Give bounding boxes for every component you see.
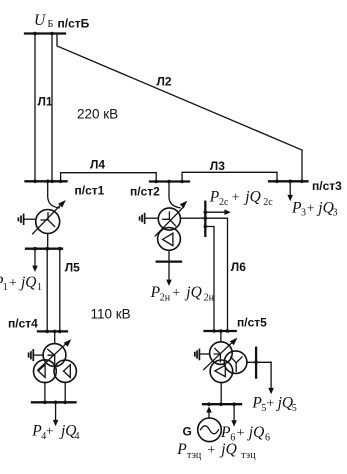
svg-text:п/ст4: п/ст4 [8,317,38,331]
svg-text:+: + [232,191,240,206]
busbar п/ст5 [205,330,236,332]
svg-text:Л3: Л3 [210,159,225,173]
svg-text:2с: 2с [219,197,229,208]
svg-text:+: + [237,426,245,441]
busbar п/ст3 [269,180,308,182]
svg-text:P: P [220,424,231,441]
transformer T4 regulation arrow [38,342,68,370]
transformer T5 connection wire [220,331,222,342]
label P6+jQ6 [220,424,270,444]
svg-text:jQ: jQ [219,441,237,458]
svg-text:п/ст2: п/ст2 [130,185,160,199]
T4 LV down wire [64,382,66,402]
generator G circle [198,418,222,442]
transformer T1 connection wire (curved) [48,181,60,208]
node busbar Б joints [33,32,37,36]
busbar Б (source bus) [25,32,65,34]
load arrow P1 [34,249,36,266]
transformer T4 HV circle [43,344,66,367]
svg-text:P: P [176,441,187,458]
line Л1 circuit 2 [51,34,53,182]
T5 LV delta winding symbol [215,365,225,376]
busbar п/ст2 MV (vertical) [204,202,206,236]
T5 MV wire to MV bus [247,361,271,363]
svg-text:3: 3 [301,208,306,219]
T2 MV wire to MV bus and line Л6 circuit 2 [180,218,227,331]
wire Л4 [61,173,157,182]
busbar п/ст2 LV [157,260,181,262]
node п/ст4 joints [45,330,49,334]
transformer T2 LV circle [158,228,181,251]
T5 star winding symbol [214,348,220,361]
label P5+jQ5 [251,395,296,415]
T2 LV down wire [168,250,170,261]
svg-text:Л2: Л2 [157,75,172,89]
ground T5 [198,349,200,359]
svg-text:2н: 2н [160,293,171,304]
svg-text:jQ: jQ [247,424,264,441]
T4 neutral ground wire [33,354,43,356]
T4 star winding symbol [48,349,55,363]
svg-text:2с: 2с [263,197,273,208]
transformer T4 LV circle [54,360,76,382]
load arrow P2с [205,211,224,213]
wire Л3 [182,172,277,181]
line Л2 [57,34,302,182]
svg-text:1: 1 [37,282,42,293]
label P4+jQ4 [31,423,79,443]
label P1+jQ1 [0,274,42,293]
svg-text:+: + [172,286,180,301]
svg-text:Л4: Л4 [90,158,105,172]
svg-text:тэц: тэц [241,450,256,461]
node п/ст5 joints [212,329,216,333]
ground T4 [32,350,34,360]
svg-text:2н: 2н [204,293,215,304]
T5 MV Y winding symbol [231,357,242,372]
transformer T1 circle U1 [36,210,60,234]
label P3+jQ3 [291,199,338,218]
svg-text:тэц: тэц [187,450,202,461]
svg-text:110 кВ: 110 кВ [91,307,131,322]
load arrow P2н [168,262,170,280]
svg-text:Л5: Л5 [65,261,80,275]
busbar п/ст2 [150,180,189,182]
transformer T2 connection wire (curved) [169,182,180,208]
svg-text:+: + [266,397,274,412]
svg-text:jQ: jQ [184,284,202,301]
svg-text:jQ: jQ [243,189,260,206]
T4 LV delta winding symbol [64,365,71,378]
transformer T5 LV circle [210,360,233,383]
ground T1 [23,214,25,224]
line Л5 circuit 1 [46,249,48,332]
load arrow P3 [289,181,291,195]
T5 neutral ground wire [199,353,210,355]
busbar п/ст5 MV (vertical) [255,348,257,378]
svg-text:5: 5 [292,403,297,414]
busbar п/ст1 110kV [26,248,62,250]
busbar п/ст4 [38,330,67,332]
line Л1 circuit 1 [34,34,36,182]
svg-text:п/ст3: п/ст3 [312,179,342,193]
transformer T1 regulation arrow [33,204,62,234]
line Л6 circuit 1 [205,227,214,332]
T5 LV down wire [220,383,222,405]
svg-text:+: + [207,443,215,458]
generator sine symbol [201,426,219,434]
svg-text:U: U [34,12,47,29]
svg-text:п/ст5: п/ст5 [237,316,267,330]
svg-text:Л1: Л1 [38,95,53,109]
label Л1 [37,94,52,107]
svg-text:jQ: jQ [19,274,37,291]
svg-text:220 кВ: 220 кВ [77,107,118,122]
node п/ст5 10kV joints [207,402,211,406]
svg-text:п/ст1: п/ст1 [75,184,105,198]
load arrow P4 [55,402,57,420]
node п/ст3 joints [275,180,279,184]
svg-text:Л6: Л6 [231,260,246,274]
T1 star winding symbol [41,213,55,227]
node п/ст1 joints [33,180,37,184]
svg-text:+: + [307,201,315,216]
T1 to 110kV bus wire [47,234,49,249]
node п/ст2 joints [154,180,158,184]
ground T2 [144,214,146,224]
label Pтэц+jQтэц [176,441,256,461]
T1 neutral ground wire [24,218,36,220]
node п/ст5 MV bus joint [254,361,258,365]
node п/ст2 MV bus joints [204,210,208,214]
svg-text:6: 6 [265,433,270,444]
label P2с+jQ2с [209,189,273,209]
svg-text:+: + [46,425,54,440]
svg-text:G: G [183,425,192,439]
node п/ст1 110kV joints [33,247,37,251]
label U_Б [34,12,54,30]
T4 MV down wire [44,382,46,402]
busbar п/ст4 10kV [32,401,76,403]
T2 delta winding symbol [163,233,173,246]
transformer T5 regulation arrow [204,341,234,370]
svg-text:1: 1 [3,282,8,293]
node п/ст4 10kV joints [43,401,47,405]
svg-text:jQ: jQ [276,395,294,412]
transformer T4 MV circle [34,360,57,383]
svg-text:4: 4 [75,431,80,442]
svg-text:jQ: jQ [316,199,334,216]
transformer T5 MV circle [224,351,247,374]
T2 neutral ground wire [145,217,159,219]
busbar п/ст5 10kV [203,403,241,405]
transformer T4 connection wire [54,331,56,343]
load arrow P5 [270,362,272,388]
svg-text:+: + [9,276,17,291]
generator feed arrow (up) [208,413,210,419]
svg-text:п/стБ: п/стБ [58,17,90,31]
T2 star winding symbol [163,212,176,226]
T4 MV delta winding symbol [38,365,45,378]
line Л5 circuit 2 [59,249,61,332]
transformer T2 HV circle [158,208,180,230]
transformer T2 regulation arrow [155,207,183,236]
load arrow P6 [233,404,235,420]
busbar п/ст1 [26,180,67,182]
label P2н+jQ2н [150,284,215,304]
svg-text:3: 3 [333,208,338,219]
transformer T5 HV circle [210,342,233,365]
svg-text:Б: Б [48,19,54,30]
